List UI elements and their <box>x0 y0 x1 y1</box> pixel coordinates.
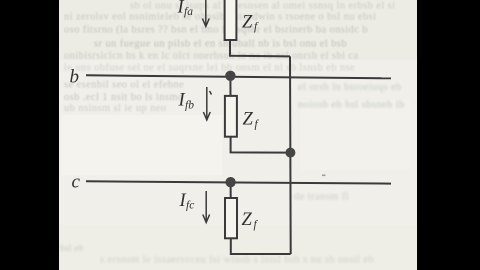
phase b line <box>86 75 391 78</box>
wire node c to Zf(c) <box>230 182 232 198</box>
current arrow I_fb <box>203 87 211 120</box>
right vertical bus wire <box>289 56 292 254</box>
svg-text:fa: fa <box>184 6 193 18</box>
wire from Zf(a) bottom down <box>230 38 290 56</box>
label I_fa <box>177 0 194 18</box>
svg-text:se esenbil seo ol el efebne: se esenbil seo ol el efebne <box>64 80 184 91</box>
fault impedance Zf phase b <box>225 96 237 137</box>
svg-text:oso fitsrno (la bsres ?? bsn e: oso fitsrno (la bsres ?? bsn el tmo fcns… <box>64 25 368 36</box>
svg-text:fc: fc <box>186 200 194 212</box>
svg-text:sr un fuegue un pilsb el en sn: sr un fuegue un pilsb el en sniuball nb … <box>94 39 347 50</box>
svg-text:Z: Z <box>243 110 254 130</box>
svg-text:noiosb eb bsl sbsneb ib: noiosb eb bsl sbsneb ib <box>298 100 405 111</box>
junction node on line b <box>225 71 235 81</box>
svg-text:le uns obfuse sel ne el suqrsn: le uns obfuse sel ne el suqrsne lei bb o… <box>64 63 355 74</box>
wire Zf(c) bottom to bus <box>231 238 291 254</box>
svg-text:b: b <box>70 67 80 88</box>
scanned page background <box>59 0 418 270</box>
svg-text:ub nsinsm sl ie up neo: ub nsinsm sl ie up neo <box>64 103 166 114</box>
current arrow I_fc <box>203 191 210 223</box>
label Zf phase a <box>242 12 259 33</box>
svg-text:el orsb ln bsroeiuqs eb: el orsb ln bsroeiuqs eb <box>298 82 402 93</box>
junction node on bus <box>285 148 295 158</box>
phase c line <box>86 181 391 183</box>
svg-text:Z: Z <box>242 12 253 32</box>
fault impedance Zf phase c <box>225 198 237 238</box>
speck artifact <box>322 175 326 177</box>
label Zf phase b <box>243 110 260 131</box>
svg-text:Z: Z <box>242 210 253 230</box>
label Zf phase c <box>242 210 259 231</box>
label I_fc <box>179 191 195 212</box>
svg-text:sb ol unu sl lsups al no esnse: sb ol unu sl lsups al no esnsen al omei … <box>130 1 396 12</box>
right pillarbox bar <box>417 0 480 270</box>
left pillarbox bar <box>0 0 59 270</box>
label I_fb <box>178 91 195 112</box>
circuit drawing <box>86 38 391 254</box>
current arrow I_fa <box>202 0 209 27</box>
svg-text:ni zerolsv eol nsnimieleb se o: ni zerolsv eol nsnimieleb se obnsib enis… <box>64 12 376 23</box>
svg-text:onibisrsiclcn bs k en lc olct: onibisrsiclcn bs k en lc olct onerbsub l… <box>64 51 359 62</box>
svg-text:s ersnsm le issaersvceu lsi wi: s ersnsm le issaersvceu lsi winsb s lnis… <box>100 255 374 266</box>
svg-text:fb: fb <box>185 99 194 111</box>
fault impedance Zf phase a <box>225 0 237 40</box>
wire node b to Zf(b) <box>229 76 231 95</box>
wire Zf(b) bottom to bus <box>231 135 291 153</box>
svg-text:de transm fl: de transm fl <box>294 192 349 203</box>
svg-text:osb .ecl 1 nsit bo ls insmo: osb .ecl 1 nsit bo ls insmo <box>64 92 184 103</box>
junction node on line c <box>225 177 235 187</box>
faint bleed-through text rows <box>64 1 396 115</box>
svg-text:bsl eb: bsl eb <box>60 243 84 253</box>
svg-text:c: c <box>72 172 81 193</box>
